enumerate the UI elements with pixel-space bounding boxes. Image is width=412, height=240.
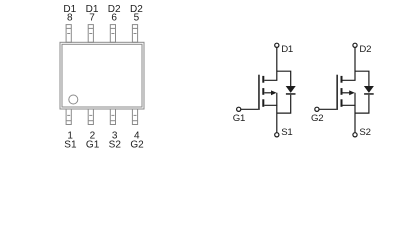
transistor Q2 (P-channel MOSFET) — [315, 43, 374, 137]
Q2 body diode — [364, 86, 374, 95]
svg-text:G2: G2 — [311, 113, 323, 124]
Q1 source to terminal wire — [276, 105, 278, 132]
Q1 drain wire — [264, 47, 277, 80]
svg-text:5: 5 — [134, 13, 140, 24]
pin 7 — [88, 25, 93, 43]
Q1 terminal S1 — [275, 133, 279, 137]
Q1 terminal G1 — [237, 107, 241, 111]
Q2 body lead with arrow — [343, 90, 355, 95]
Q1 body-diode bottom wire — [277, 95, 291, 113]
Q2 source to terminal wire — [354, 105, 356, 132]
pin 6 — [110, 25, 115, 43]
Q1 body diode — [286, 86, 296, 95]
Q1 body-diode top wire — [277, 71, 291, 86]
Q1 channel segment bottom — [262, 99, 264, 107]
svg-text:S2: S2 — [109, 140, 122, 151]
Q1 channel segment middle — [262, 88, 264, 95]
pin 2 — [88, 109, 93, 125]
pin 8 — [66, 25, 71, 43]
Q2 terminal S2 — [353, 133, 357, 137]
Q1 body lead with arrow — [264, 90, 276, 95]
Q1 gate wire — [241, 108, 258, 110]
svg-text:G2: G2 — [130, 140, 144, 151]
Q2 gate electrode — [336, 75, 338, 110]
Q2 channel segment bottom — [341, 99, 343, 107]
pin 1 — [66, 109, 71, 125]
Q2 channel segment top — [341, 76, 343, 83]
Q2 source wire — [343, 93, 356, 106]
svg-text:8: 8 — [67, 13, 73, 24]
svg-text:S2: S2 — [359, 127, 370, 138]
Q2 channel segment middle — [341, 88, 343, 95]
pin 5 — [132, 25, 137, 43]
Q1 channel segment top — [262, 76, 264, 83]
Q2 body-diode bottom wire — [355, 95, 369, 113]
svg-text:6: 6 — [111, 13, 117, 24]
svg-text:7: 7 — [89, 13, 95, 24]
pin-1 index marker — [69, 95, 78, 104]
Q2 gate wire — [319, 108, 336, 110]
pin 4 — [132, 109, 137, 125]
svg-text:D2: D2 — [359, 44, 371, 55]
Q2 drain wire — [343, 47, 356, 80]
Q2 terminal G2 — [315, 107, 319, 111]
Q2 body-diode top wire — [355, 71, 369, 86]
Q1 gate electrode — [258, 75, 260, 110]
svg-text:G1: G1 — [233, 113, 245, 124]
svg-text:S1: S1 — [281, 127, 292, 138]
Q2 terminal D2 — [353, 43, 357, 47]
pin 3 — [110, 109, 115, 125]
package body (SO-8 top view) — [60, 42, 144, 109]
svg-text:D1: D1 — [281, 44, 293, 55]
Q1 terminal D1 — [275, 43, 279, 47]
Q1 source wire — [264, 93, 277, 106]
svg-text:G1: G1 — [86, 140, 100, 151]
svg-text:S1: S1 — [64, 140, 77, 151]
